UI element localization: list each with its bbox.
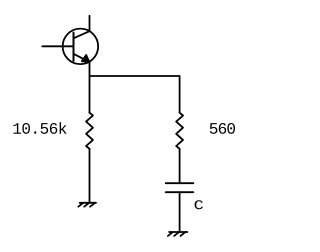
wire resistor to ground [89,149,91,203]
label C [195,200,203,209]
label 560 [210,123,235,134]
transistor Q1 collector stroke [74,31,90,38]
wire left branch to resistor [89,76,91,113]
transistor Q1 emitter arrowhead [82,55,90,62]
label 10.56k [13,122,66,134]
transistor Q1 base bar [73,33,75,61]
wire horizontal node to right branch [90,75,180,77]
wire resistor to capacitor [179,149,181,183]
wire collector up stub [89,16,91,31]
wire capacitor to ground [179,192,181,232]
transistor Q1 [63,29,99,65]
capacitor C top plate [166,182,194,184]
resistor 560 [176,113,183,149]
ground left [78,203,96,207]
wire base lead [42,45,73,47]
transistor Q1 emitter stroke [74,54,90,62]
wire right branch to resistor [179,76,181,113]
capacitor C bottom plate [166,191,194,193]
wire emitter down to node [89,62,91,76]
ground right [168,232,188,236]
resistor 10.56k [86,113,93,149]
